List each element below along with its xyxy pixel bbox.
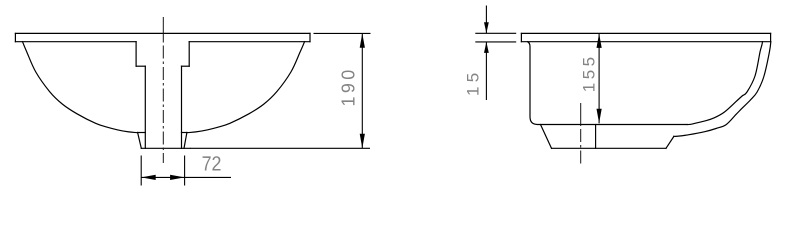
dim 15 lower extension line bbox=[475, 41, 516, 43]
dim 72 right extension line bbox=[184, 156, 186, 186]
basin inner curve bbox=[687, 42, 763, 125]
centerline left view lead dash bbox=[162, 17, 164, 43]
dim 72 dimension line bbox=[141, 176, 231, 178]
svg-text:155: 155 bbox=[580, 53, 599, 92]
drain pipe left wall bbox=[144, 66, 146, 148]
drain column left step bbox=[136, 65, 145, 67]
right view rim bottom line bbox=[521, 41, 770, 43]
centerline left view bbox=[162, 46, 164, 164]
dim 72 left extension line bbox=[140, 156, 142, 186]
drain boss right slant bbox=[184, 133, 187, 149]
dim 15 upper extension line bbox=[475, 32, 516, 34]
svg-text:15: 15 bbox=[463, 68, 482, 96]
dim 15 dimension line upper segment bbox=[485, 6, 487, 34]
bowl right curve bbox=[187, 42, 305, 133]
dim 155 top arrow bbox=[597, 33, 602, 48]
foot bottom edge bbox=[552, 147, 667, 149]
drain column right outer wall bbox=[188, 42, 190, 66]
bowl left curve bbox=[23, 42, 138, 133]
svg-text:190: 190 bbox=[339, 66, 359, 106]
left view rim bottom line right segment bbox=[189, 41, 310, 43]
drain pipe line (side view) bbox=[595, 125, 597, 149]
dim 72 right arrow bbox=[170, 175, 185, 180]
dim 190 bottom extension line bbox=[190, 147, 370, 149]
dim 190 bottom arrow bbox=[360, 134, 365, 149]
dim 15 dimension line lower segment bbox=[485, 42, 487, 100]
drain column right step bbox=[182, 65, 190, 67]
dim 15 bottom arrow bbox=[484, 42, 489, 53]
basin left wall and inner bottom line bbox=[528, 42, 687, 125]
left view rim left end cap bbox=[14, 33, 16, 41]
centerline right view lead dash bbox=[580, 103, 582, 126]
drain boss bottom edge bbox=[141, 147, 190, 149]
right view rim left end cap bbox=[520, 33, 522, 41]
dim 15 top arrow bbox=[484, 22, 489, 33]
dim 190 dimension line bbox=[361, 33, 363, 148]
left view rim right end cap bbox=[309, 33, 311, 41]
drain boss top edge right bbox=[182, 132, 187, 134]
dim 155 dimension line bbox=[598, 33, 600, 123]
right view rim right end cap bbox=[770, 33, 772, 41]
drain pipe right wall bbox=[181, 66, 183, 148]
right view rim top line bbox=[521, 32, 770, 34]
left view rim bottom line left segment bbox=[15, 41, 136, 43]
centerline right view bbox=[580, 129, 582, 165]
foot left slant bbox=[541, 125, 552, 149]
dim 72 left arrow bbox=[141, 175, 156, 180]
svg-text:72: 72 bbox=[202, 153, 222, 175]
drain boss top edge left bbox=[138, 132, 146, 134]
dim 190 top arrow bbox=[360, 33, 365, 48]
drain column left outer wall bbox=[135, 42, 137, 66]
dim 155 bottom arrow bbox=[597, 109, 602, 124]
foot right slant bbox=[666, 137, 674, 149]
left view rim top line bbox=[15, 32, 310, 34]
drain boss left slant bbox=[138, 133, 142, 149]
basin outer curve bbox=[674, 42, 771, 137]
dim 190 top extension line bbox=[314, 32, 371, 34]
